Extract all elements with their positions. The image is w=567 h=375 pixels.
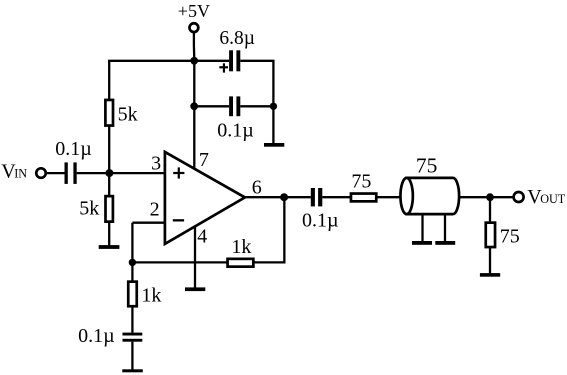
svg-text:0.1µ: 0.1µ: [302, 210, 339, 232]
svg-text:5k: 5k: [79, 198, 99, 220]
svg-text:7: 7: [199, 149, 209, 171]
svg-text:4: 4: [197, 226, 207, 248]
svg-text:OUT: OUT: [540, 192, 566, 206]
svg-text:75: 75: [416, 153, 438, 177]
svg-text:5k: 5k: [118, 104, 138, 126]
svg-text:75: 75: [351, 171, 371, 193]
svg-text:6.8µ: 6.8µ: [219, 28, 255, 49]
svg-text:1k: 1k: [231, 236, 251, 258]
svg-text:3: 3: [151, 152, 161, 174]
svg-text:6: 6: [252, 176, 262, 198]
svg-text:+5V: +5V: [178, 1, 210, 21]
svg-text:75: 75: [500, 226, 520, 248]
svg-text:1k: 1k: [141, 284, 161, 306]
svg-text:0.1µ: 0.1µ: [55, 138, 92, 160]
svg-text:IN: IN: [14, 167, 27, 181]
svg-text:0.1µ: 0.1µ: [217, 119, 254, 141]
svg-text:2: 2: [150, 199, 160, 221]
svg-text:0.1µ: 0.1µ: [78, 325, 115, 347]
